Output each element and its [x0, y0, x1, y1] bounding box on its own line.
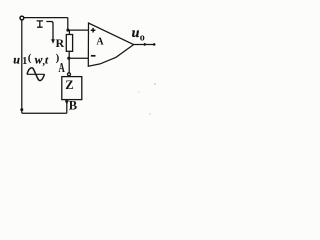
impedance Z box	[62, 77, 82, 100]
output label uO	[132, 26, 145, 43]
op-amp + input marking	[91, 28, 96, 33]
svg-text:): )	[56, 52, 60, 64]
input terminal (top-left)	[20, 16, 24, 20]
wire: non-inverting input	[68, 29, 88, 31]
junction dot (inverting input branch)	[67, 57, 70, 60]
output arrowhead	[144, 43, 148, 46]
svg-text:R: R	[56, 36, 65, 50]
wire: top corner down to node	[67, 18, 69, 31]
wire: Z bottom stub with current arrowhead	[66, 100, 68, 114]
wire: output	[134, 44, 154, 46]
svg-text:A: A	[58, 61, 65, 75]
svg-text:(: (	[28, 52, 32, 64]
scan speckle	[138, 91, 139, 92]
AC source symbol (sine with axis)	[27, 73, 45, 75]
svg-text:u: u	[13, 52, 20, 66]
op-amp - input marking	[91, 55, 96, 57]
wire: stub node to resistor top	[68, 30, 70, 34]
source label u1(w,t)	[13, 52, 59, 67]
svg-text:o: o	[140, 32, 145, 43]
current direction arrow	[46, 22, 53, 41]
resistor R body	[66, 35, 72, 52]
svg-text:Z: Z	[65, 78, 73, 92]
svg-text:1: 1	[22, 56, 27, 67]
junction dot on left branch	[20, 108, 23, 111]
svg-text:A: A	[96, 37, 104, 48]
op-amp U1 triangle	[88, 23, 133, 66]
wire: resistor bottom to node A	[68, 51, 70, 73]
wire: bottom rail	[22, 112, 67, 114]
scan speckle	[149, 113, 150, 114]
node A terminal circle	[68, 73, 71, 76]
output end dot	[153, 43, 156, 46]
svg-text:u: u	[132, 26, 140, 41]
wire: top rail	[24, 17, 68, 19]
node junction dot (+ input branch)	[66, 29, 69, 32]
current label I	[37, 21, 43, 27]
scan speckle	[154, 83, 156, 85]
wire: inverting input	[69, 57, 89, 59]
svg-text:B: B	[69, 99, 77, 113]
wire: left branch	[21, 20, 23, 113]
